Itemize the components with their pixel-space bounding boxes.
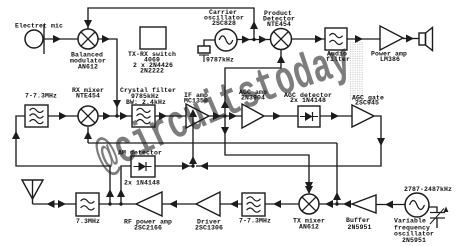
wire filter to RX mixer: [48, 112, 78, 120]
wire driver to RF power amp: [162, 200, 196, 208]
AGC amp Q1 2N3904: [242, 104, 264, 128]
svg-text:filter: filter: [326, 56, 350, 63]
AM detector D3 D4: [131, 156, 155, 177]
RX mixer U5 NTE454: [78, 106, 98, 126]
label AGC gate 2SC945: [352, 95, 384, 107]
wire antenna line up to 7-7.3MHz filter: [12, 116, 114, 206]
label Carrier oscillator 2SC828: [204, 9, 244, 27]
crystal filter FL3 9785kHz: [132, 105, 155, 127]
svg-text:2N3904: 2N3904: [241, 95, 265, 102]
wire power amp to speaker: [403, 35, 419, 43]
label IF amp MC1350: [184, 92, 208, 105]
AGC gate Q2 2SC945: [352, 105, 374, 127]
wire AGC gate feedback to junction: [196, 116, 385, 170]
label 7-7.3MHz: [25, 93, 57, 100]
label AM detector: [118, 150, 162, 157]
wire buffer to TX mixer: [319, 200, 352, 208]
svg-text:NTE454: NTE454: [76, 93, 100, 100]
wire carrier osc to balanced modulator top rail: [84, 8, 258, 41]
svg-text:LM386: LM386: [380, 56, 400, 63]
svg-text:AN612: AN612: [299, 224, 319, 231]
label Variable frequency oscillator 2N5951: [394, 218, 434, 245]
svg-text:Variable: Variable: [394, 218, 426, 225]
wire LO rail to RX mixer: [84, 127, 92, 143]
wire IF output down to TX mixer: [221, 116, 313, 193]
label 7.3MHz: [76, 218, 100, 225]
label RX mixer NTE454: [72, 87, 104, 100]
label Electret mic: [15, 23, 63, 30]
wire product detector to audio filter: [292, 35, 326, 43]
label 9787kHz: [206, 57, 234, 64]
IF amp U6 MC1350: [186, 104, 209, 128]
label Driver 2SC1306: [195, 219, 223, 232]
label Audio filter: [326, 51, 350, 64]
svg-text:AN612: AN612: [78, 64, 98, 71]
svg-text:2x 1N4148: 2x 1N4148: [290, 97, 326, 104]
TX mixer U7 AN612: [299, 186, 319, 214]
label TX mixer AN612: [293, 218, 325, 231]
svg-text:2787-2487kHz: 2787-2487kHz: [404, 186, 452, 193]
svg-text:MC1350: MC1350: [184, 98, 208, 105]
wire carrier osc to product detector: [237, 36, 270, 44]
svg-text:2SC2166: 2SC2166: [134, 225, 162, 232]
electret mic symbol: [25, 24, 44, 54]
balanced modulator U1 AN612: [78, 29, 98, 49]
svg-text:9787kHz: 9787kHz: [206, 57, 234, 64]
svg-text:2SC945: 2SC945: [355, 100, 379, 107]
crystal X1 9787kHz: [198, 40, 215, 62]
wire antenna to 7.3MHz filter: [33, 200, 77, 208]
wire 7.3MHz filter to RF power amp: [99, 203, 136, 205]
wire AGC amp to AGC detector: [264, 112, 298, 120]
label Product Detector NTE454: [263, 10, 295, 28]
wire AM detector to AGC junction: [155, 162, 195, 170]
svg-text:2N5951: 2N5951: [347, 224, 371, 231]
svg-text:2N2222: 2N2222: [140, 68, 164, 75]
label TX-RX switch 4069 2x2N4426 2N2222: [128, 51, 176, 75]
bandpass filter FL5 7-7.3MHz: [242, 193, 265, 216]
label 2x 1N4148: [124, 180, 160, 187]
AGC detector D1 D2: [298, 106, 320, 127]
wire audio filter to power amp: [347, 35, 380, 43]
label Balanced modulator AN612: [70, 52, 106, 71]
svg-text:Electret mic: Electret mic: [15, 23, 63, 30]
bandpass filter FL2 7-7.3MHz: [25, 105, 48, 127]
svg-text:2SC828: 2SC828: [212, 20, 236, 27]
VFO U8 2N5951: [405, 193, 429, 217]
LO rail VFO to RX mixer: [88, 142, 337, 144]
wire IF amp output junction: [209, 112, 242, 120]
label AGC detector 2x 1N4148: [284, 92, 332, 104]
wire antenna tap to AM detector: [117, 166, 131, 206]
wire crystal filter to IF amp: [155, 112, 186, 120]
wire VFO to buffer: [376, 201, 405, 209]
svg-text:7-7.3MHz: 7-7.3MHz: [25, 93, 57, 100]
wire mic to balanced modulator: [44, 35, 78, 43]
power amp U4 LM386: [380, 26, 403, 50]
wire IF output up to product detector: [221, 50, 285, 116]
driver Q4 2SC1306: [196, 192, 220, 216]
wire AGC detector to AGC gate: [320, 112, 352, 120]
antenna: [22, 180, 43, 204]
wire RX mixer to crystal filter: [98, 112, 132, 120]
svg-text:7-7.3MHz: 7-7.3MHz: [239, 218, 271, 225]
label RF power amp 2SC2166: [124, 219, 172, 232]
wire 7-7.3MHz filter to driver: [220, 200, 242, 208]
label 7-7.3MHz bottom: [239, 218, 271, 225]
label 2787-2487kHz: [404, 186, 452, 193]
svg-text:7.3MHz: 7.3MHz: [76, 218, 100, 225]
label Crystal filter 9785kHz BW 2.4kHz: [120, 87, 176, 106]
wire balanced modulator output to crystal filter junction: [98, 35, 121, 118]
watermark dotted logo text: [88, 35, 363, 186]
svg-text:BW: 2.4kHz: BW: 2.4kHz: [126, 99, 166, 106]
audio filter FL1: [325, 28, 347, 50]
svg-text:2x 1N4148: 2x 1N4148: [124, 180, 160, 187]
label Power amp LM386: [371, 51, 407, 64]
svg-text:AM detector: AM detector: [118, 150, 162, 157]
wire TX mixer to filter: [265, 200, 299, 208]
carrier oscillator U2 2SC828: [215, 29, 237, 51]
wire buffer junction up to LO rail: [333, 143, 341, 206]
TX-RX switch box: [140, 27, 166, 49]
wire AGC junction up to IF amp: [189, 109, 197, 166]
RF power amp Q3 2SC2166: [136, 192, 162, 216]
svg-text:2SC1306: 2SC1306: [195, 225, 223, 232]
product detector U3 NTE454: [271, 29, 292, 50]
buffer Q5 2N5951: [352, 195, 376, 213]
lowpass filter FL4 7.3MHz: [76, 193, 99, 216]
svg-text:NTE454: NTE454: [267, 21, 291, 28]
label AGC amp 2N3904: [239, 89, 267, 102]
variable capacitor VC1: [429, 207, 448, 229]
label Buffer 2N5951: [346, 217, 372, 231]
svg-text:2N5951: 2N5951: [402, 237, 426, 244]
speaker LS1: [419, 28, 433, 51]
